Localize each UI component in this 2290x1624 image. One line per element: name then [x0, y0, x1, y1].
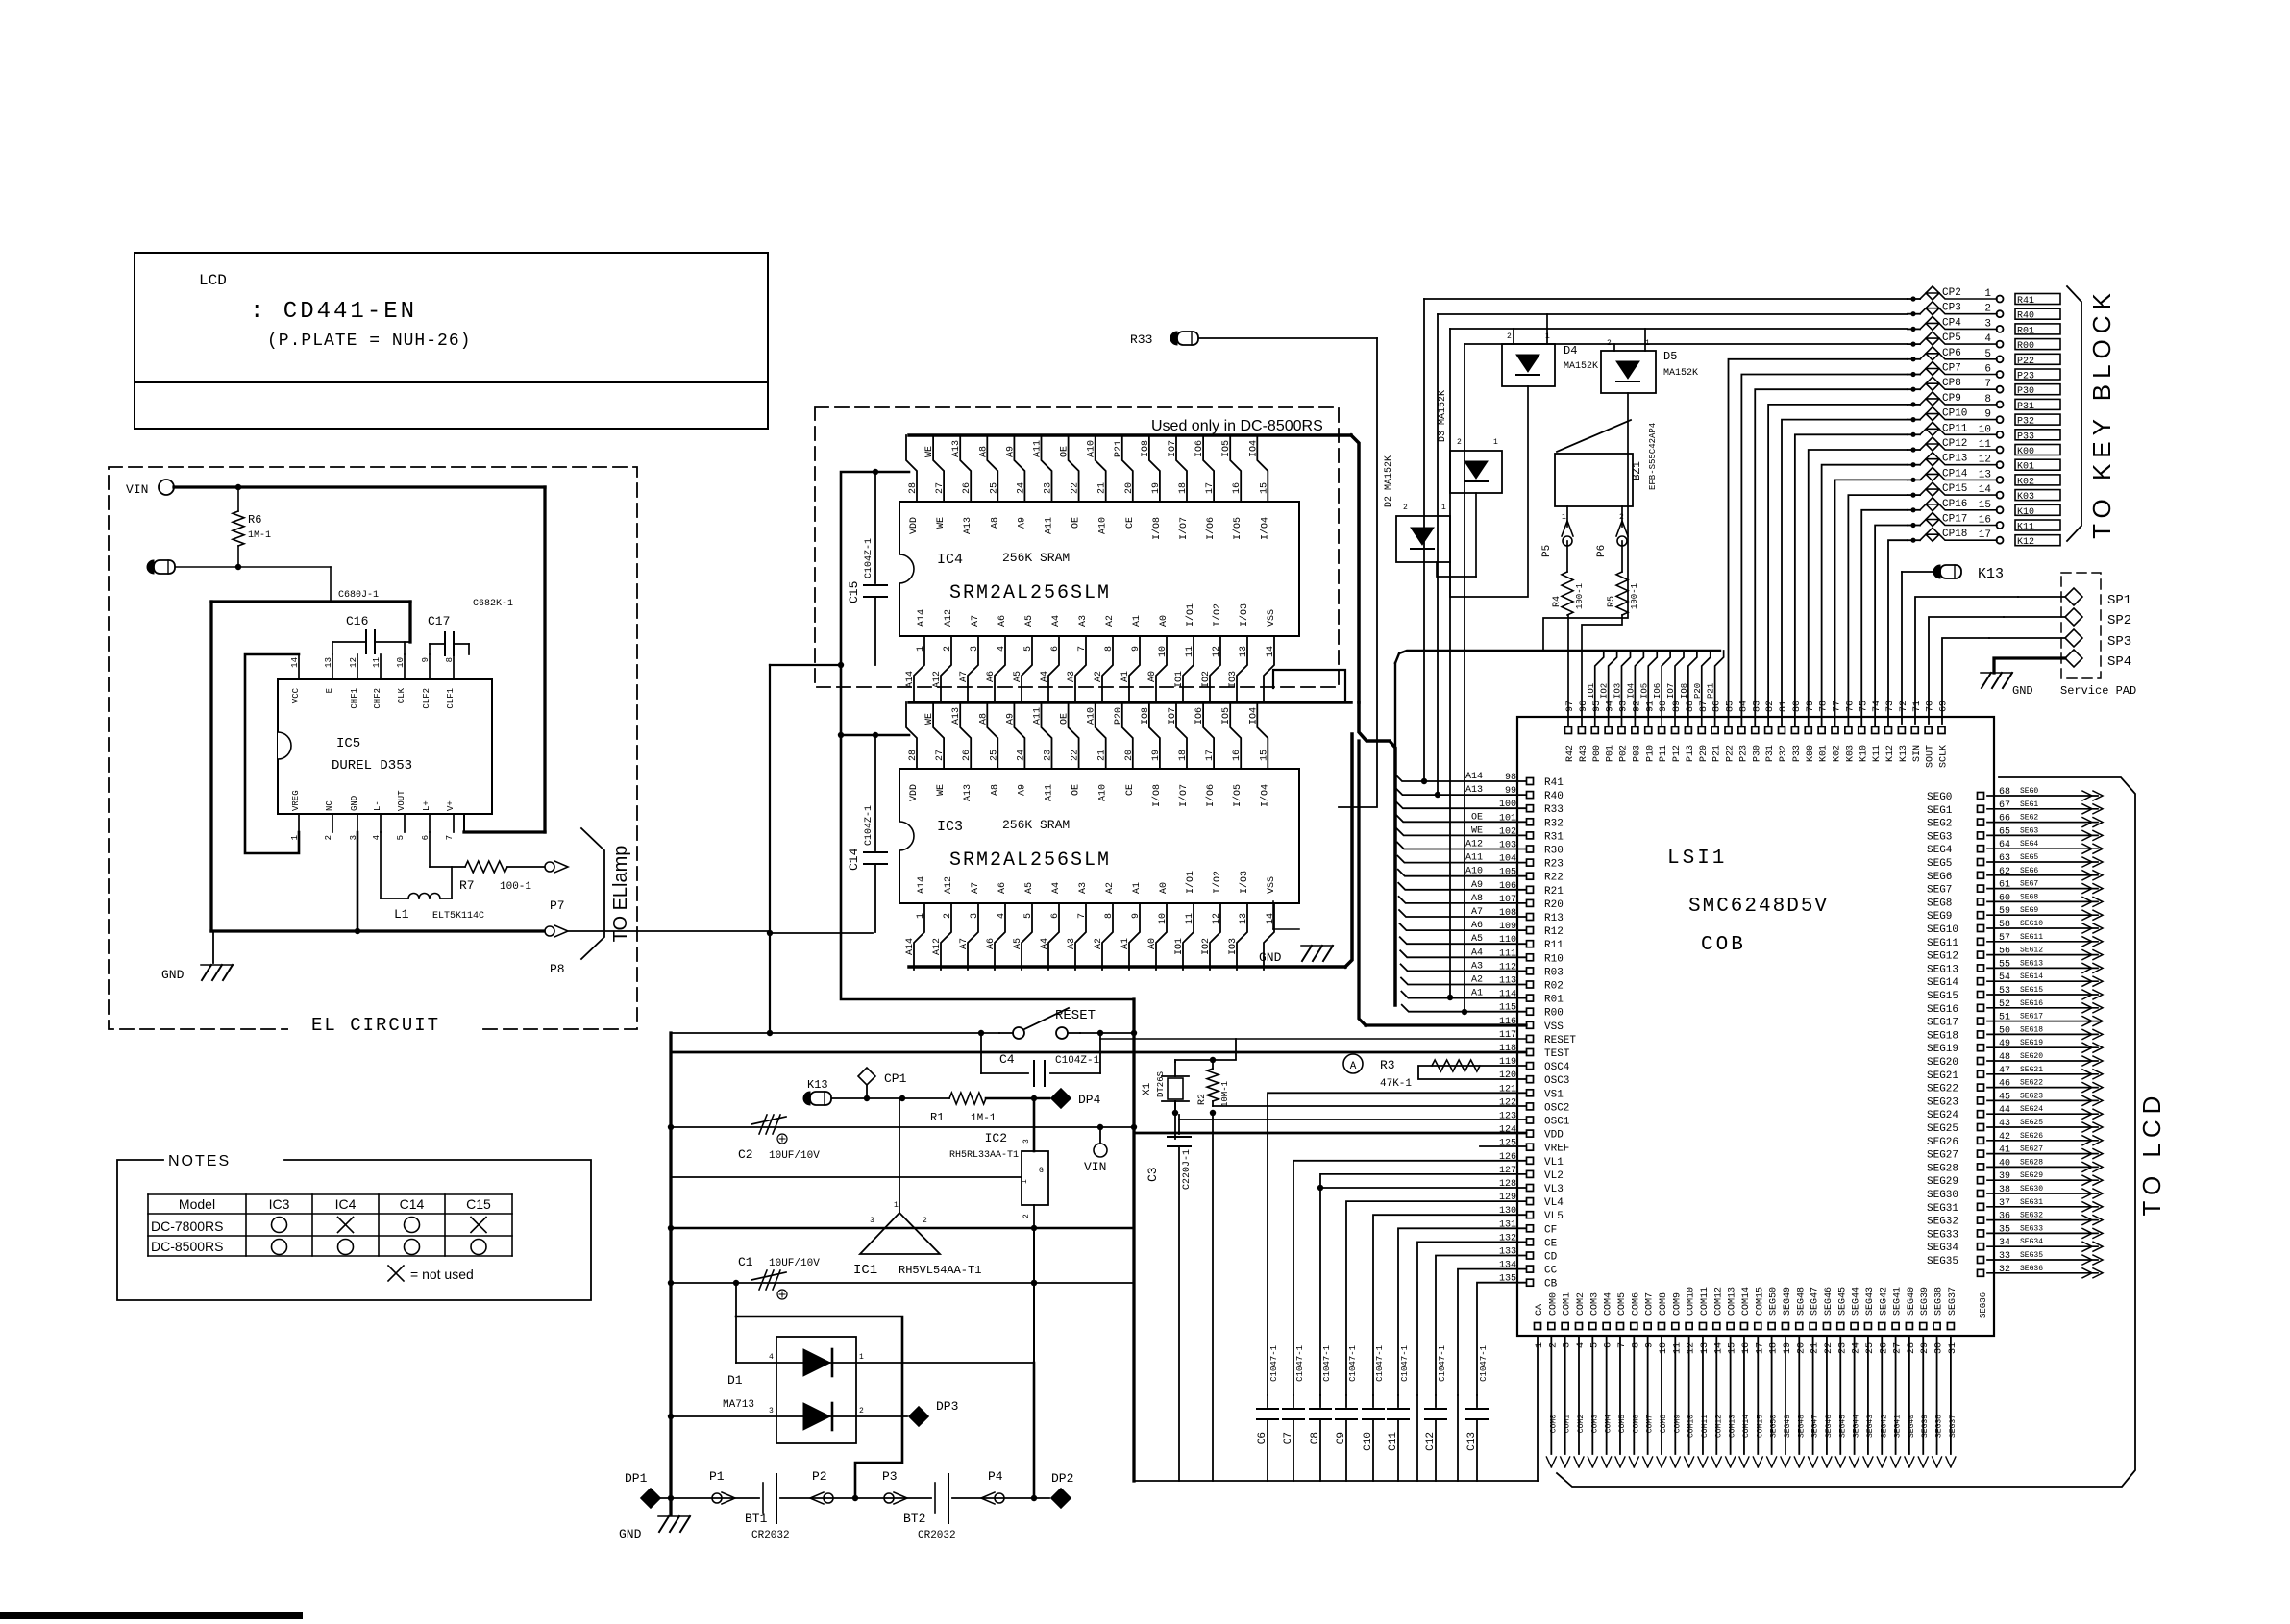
svg-text:10UF/10V: 10UF/10V [769, 1150, 820, 1162]
svg-text:COM1: COM1 [1563, 1292, 1573, 1316]
svg-text:IO7: IO7 [1666, 683, 1676, 699]
svg-text:CP4: CP4 [1942, 317, 1961, 329]
svg-text:R00: R00 [1544, 1008, 1564, 1020]
resistor R7 100-1 [429, 832, 431, 867]
wire IC1 rail [671, 1227, 1134, 1230]
svg-text:5: 5 [1589, 1342, 1600, 1348]
svg-text:SEG18: SEG18 [2020, 1025, 2043, 1034]
svg-text:COM12: COM12 [1714, 1415, 1723, 1438]
svg-text:CE: CE [1125, 784, 1136, 796]
svg-text:SEG45: SEG45 [1838, 1415, 1847, 1438]
svg-text:COM7: COM7 [1645, 1292, 1656, 1316]
svg-text:DUREL D353: DUREL D353 [332, 758, 412, 774]
svg-text:75: 75 [1859, 701, 1869, 712]
wire C2 rail [671, 1126, 1134, 1128]
svg-text:SEG40: SEG40 [1907, 1287, 1917, 1316]
svg-text:DP1: DP1 [625, 1471, 648, 1486]
svg-text:7: 7 [1077, 913, 1088, 919]
svg-text:2: 2 [1457, 438, 1462, 447]
wire VIN rail to V+ [174, 485, 545, 488]
capacitor C13 C1047-1 [1476, 1395, 1478, 1407]
wire VDD rail to pin 124 [1134, 1132, 1526, 1135]
wire IC2 pin2 down [1033, 1205, 1035, 1228]
svg-text:2: 2 [1548, 1342, 1559, 1348]
svg-text:K12: K12 [2017, 537, 2034, 548]
svg-text:23: 23 [1044, 482, 1054, 494]
svg-text:GND: GND [2012, 684, 2033, 698]
svg-text:SEG35: SEG35 [1927, 1256, 1958, 1267]
svg-text:COM6: COM6 [1631, 1292, 1641, 1316]
svg-text:SEG36: SEG36 [2020, 1265, 2043, 1273]
svg-text:A3: A3 [1078, 882, 1089, 894]
svg-text:I/O5: I/O5 [1232, 517, 1243, 540]
svg-text:COM3: COM3 [1590, 1415, 1599, 1433]
svg-text:28: 28 [908, 482, 919, 494]
svg-text:SEG21: SEG21 [1927, 1070, 1958, 1082]
svg-text:SEG26: SEG26 [1927, 1137, 1958, 1148]
wire R33 vertical [1339, 338, 1377, 807]
svg-text:COM13: COM13 [1728, 1287, 1738, 1316]
test pad CP1 [858, 1068, 875, 1085]
svg-text:X1: X1 [1142, 1082, 1153, 1095]
LSI1 chip body [1517, 717, 1994, 1336]
svg-text:SRM2AL256SLM: SRM2AL256SLM [949, 849, 1111, 872]
svg-text:EFB-S55C42AP4: EFB-S55C42AP4 [1648, 423, 1658, 490]
wire C15 loop [841, 472, 909, 665]
node VIN (power) [1094, 1144, 1107, 1157]
svg-text:A1: A1 [1120, 938, 1131, 949]
connector P2 [824, 1493, 833, 1503]
svg-text:CP17: CP17 [1942, 514, 1967, 526]
svg-text:10: 10 [1158, 646, 1169, 657]
svg-text:SEG17: SEG17 [2020, 1013, 2043, 1021]
svg-text:A5: A5 [1013, 938, 1023, 949]
wire CP2 R41 line [1423, 299, 1425, 781]
svg-text:P31: P31 [2017, 402, 2034, 412]
svg-text:SEG24: SEG24 [1927, 1110, 1958, 1121]
svg-text:125: 125 [1499, 1139, 1516, 1149]
svg-text:C15: C15 [466, 1196, 491, 1212]
legend X = not used [388, 1266, 404, 1281]
wire X1/R2 top link [1175, 1059, 1213, 1061]
svg-text:P32: P32 [1779, 745, 1789, 762]
svg-text:IC5: IC5 [336, 736, 360, 751]
svg-text:2: 2 [943, 913, 953, 919]
svg-text:SEG7: SEG7 [2020, 880, 2038, 889]
svg-text:C7: C7 [1283, 1432, 1294, 1444]
svg-text:24: 24 [1016, 482, 1026, 494]
svg-text:C6: C6 [1257, 1432, 1268, 1444]
svg-text:A7: A7 [971, 882, 981, 894]
ground GND (SRAM) [1272, 901, 1274, 929]
svg-text:78: 78 [1819, 701, 1830, 712]
svg-text:A8: A8 [990, 517, 1000, 529]
svg-text:C1047-1: C1047-1 [1479, 1345, 1489, 1382]
svg-text:SEG26: SEG26 [2020, 1132, 2043, 1141]
wire X1 bottom node [1174, 1101, 1176, 1115]
svg-text:A13: A13 [951, 440, 962, 457]
svg-text:IO3: IO3 [1613, 683, 1623, 699]
svg-text:9: 9 [1645, 1342, 1656, 1348]
svg-text:9: 9 [1131, 913, 1142, 919]
svg-text:A10: A10 [1098, 517, 1109, 534]
svg-text:C682K-1: C682K-1 [473, 599, 513, 609]
svg-text:SEG6: SEG6 [1927, 872, 1952, 883]
svg-text:P4: P4 [988, 1469, 1003, 1484]
svg-text:C104Z-1: C104Z-1 [1055, 1055, 1100, 1067]
svg-text:R23: R23 [1544, 859, 1564, 871]
diode pack D1 box [776, 1337, 856, 1443]
svg-text:K03: K03 [1845, 745, 1856, 762]
svg-text:I/O7: I/O7 [1178, 784, 1190, 807]
svg-text:C16: C16 [346, 614, 368, 628]
svg-text:C4: C4 [999, 1052, 1015, 1067]
svg-text:SEG50: SEG50 [1770, 1415, 1779, 1438]
svg-text:RESET: RESET [1055, 1008, 1096, 1023]
svg-text:C10: C10 [1363, 1432, 1374, 1451]
svg-text:COB: COB [1701, 934, 1746, 956]
svg-text:24: 24 [1016, 750, 1026, 761]
svg-text:COM15: COM15 [1755, 1287, 1765, 1316]
svg-text:256K SRAM: 256K SRAM [1002, 818, 1070, 832]
svg-text:A1: A1 [1132, 615, 1143, 627]
svg-text:13: 13 [324, 657, 333, 668]
pad SP4 [2065, 650, 2082, 667]
svg-text:11: 11 [372, 657, 382, 668]
svg-text:IO2: IO2 [1201, 671, 1212, 688]
svg-text:P23: P23 [1738, 745, 1749, 762]
svg-text:MA152K: MA152K [1564, 361, 1598, 372]
svg-text:IO1: IO1 [1174, 938, 1185, 955]
wire left power rail [669, 1033, 672, 1514]
svg-text:SEG19: SEG19 [2020, 1039, 2043, 1047]
svg-text:C15: C15 [847, 581, 861, 603]
svg-text:11: 11 [1185, 646, 1195, 657]
svg-text:CLF1: CLF1 [446, 688, 456, 709]
svg-text:VDD: VDD [909, 517, 920, 534]
svg-text:P33: P33 [1792, 745, 1803, 762]
svg-text:R6: R6 [248, 513, 261, 527]
svg-text:K01: K01 [2017, 462, 2034, 473]
svg-text:CP12: CP12 [1942, 438, 1967, 450]
svg-text:GND: GND [619, 1527, 642, 1541]
svg-text:I/O6: I/O6 [1205, 517, 1217, 540]
svg-text:A11: A11 [1045, 784, 1055, 801]
svg-text:94: 94 [1606, 701, 1616, 712]
svg-text:CP15: CP15 [1942, 483, 1967, 495]
svg-text:P1: P1 [709, 1469, 725, 1484]
bus VDD top (IC4) [909, 433, 1351, 437]
bus bottom (IC3) [909, 965, 1345, 969]
wire diode chain jogs [1437, 562, 1476, 577]
svg-text:R2: R2 [1197, 1094, 1208, 1105]
svg-text:2: 2 [1607, 339, 1612, 348]
svg-text:1: 1 [1021, 1179, 1029, 1184]
svg-text:SEG28: SEG28 [1927, 1163, 1958, 1174]
svg-text:A12: A12 [944, 876, 954, 894]
svg-text:R21: R21 [1544, 886, 1564, 898]
svg-text:CP7: CP7 [1942, 363, 1961, 375]
svg-text:COM14: COM14 [1742, 1415, 1751, 1438]
svg-text:A2: A2 [1105, 615, 1116, 627]
svg-text:SEG36: SEG36 [1979, 1292, 1988, 1318]
svg-text:CLF2: CLF2 [422, 688, 431, 709]
svg-text:P22: P22 [1726, 745, 1736, 762]
svg-text:VIN: VIN [126, 482, 148, 497]
svg-text:(P.PLATE = NUH-26): (P.PLATE = NUH-26) [267, 332, 471, 351]
svg-text:SEG6: SEG6 [2020, 867, 2038, 875]
svg-text:3: 3 [1563, 1342, 1573, 1348]
svg-text:K00: K00 [1806, 745, 1816, 762]
IC5 top pin stubs and labels [298, 654, 300, 679]
LSI1 left pins 98-135 [1527, 778, 1534, 785]
svg-text:26: 26 [1879, 1342, 1889, 1354]
svg-text:COM7: COM7 [1646, 1415, 1655, 1433]
svg-text:Model: Model [179, 1196, 215, 1212]
svg-text:P03: P03 [1632, 745, 1642, 762]
svg-text:C1047-1: C1047-1 [1348, 1345, 1358, 1382]
resistor R1 1M-1 [867, 1097, 949, 1099]
op-amp IC5 DUREL D353 body [278, 679, 492, 814]
wire CE CC straight columns [1416, 1395, 1418, 1481]
svg-text:25: 25 [989, 482, 999, 494]
svg-text:77: 77 [1833, 701, 1843, 712]
svg-text:VREF: VREF [1544, 1144, 1569, 1155]
svg-text:SEG9: SEG9 [2020, 906, 2038, 915]
svg-text:SEG42: SEG42 [1879, 1287, 1889, 1316]
svg-text:8: 8 [445, 657, 455, 662]
svg-text:K13: K13 [1899, 745, 1909, 762]
svg-text:K11: K11 [1872, 745, 1883, 762]
diode D4 MA152K [1502, 344, 1555, 386]
svg-text:SEG47: SEG47 [1811, 1415, 1820, 1438]
svg-text:EL CIRCUIT: EL CIRCUIT [311, 1015, 440, 1036]
svg-text:91: 91 [1645, 701, 1656, 712]
svg-text:A9: A9 [1017, 517, 1027, 529]
svg-text:I/O3: I/O3 [1239, 871, 1250, 894]
svg-text:SRM2AL256SLM: SRM2AL256SLM [949, 582, 1111, 604]
svg-text:2: 2 [324, 835, 333, 840]
svg-text:1: 1 [916, 646, 926, 652]
svg-text:A13: A13 [951, 707, 962, 725]
crystal X1 DT26S [1174, 1062, 1176, 1076]
svg-text:IO4: IO4 [1248, 707, 1259, 725]
pad DP4 [986, 1097, 1049, 1100]
svg-text:17: 17 [1205, 750, 1216, 761]
svg-text:VS1: VS1 [1544, 1089, 1564, 1100]
svg-text:R31: R31 [1544, 831, 1564, 843]
svg-text:90: 90 [1659, 701, 1669, 712]
svg-text:K00: K00 [2017, 447, 2034, 457]
svg-text:SEG34: SEG34 [2020, 1238, 2043, 1246]
component K13 (service) [1933, 565, 1940, 578]
pad DP2 [1051, 1489, 1071, 1508]
wire TEST rail to pin 118 [671, 1051, 1526, 1054]
svg-text:A10: A10 [1087, 707, 1097, 725]
svg-text:COM8: COM8 [1660, 1415, 1668, 1433]
svg-text:VL4: VL4 [1544, 1197, 1564, 1209]
svg-text:K10: K10 [1859, 745, 1869, 762]
svg-text:A9: A9 [1005, 446, 1016, 457]
svg-text:COM15: COM15 [1756, 1415, 1764, 1438]
svg-text:22: 22 [1071, 750, 1081, 761]
svg-text:P8: P8 [550, 962, 565, 976]
svg-text:G: G [1039, 1167, 1044, 1175]
svg-text:SEG17: SEG17 [1927, 1018, 1958, 1029]
svg-text:SEG44: SEG44 [1852, 1287, 1862, 1316]
svg-text:15: 15 [1728, 1342, 1738, 1354]
svg-text:BZ1: BZ1 [1632, 461, 1643, 480]
wire OSC2 to crystal [1213, 1105, 1526, 1107]
svg-text:14: 14 [1266, 913, 1276, 924]
svg-text:SEG21: SEG21 [2020, 1066, 2043, 1074]
svg-text:K13: K13 [1978, 566, 2004, 582]
svg-text:D4: D4 [1564, 344, 1577, 357]
pad SP3 [2065, 629, 2082, 647]
svg-text:NC: NC [325, 800, 334, 811]
svg-text:K02: K02 [1833, 745, 1843, 762]
svg-text:A2: A2 [1105, 882, 1116, 894]
svg-text:C2: C2 [738, 1147, 753, 1162]
svg-text:Used only in DC-8500RS: Used only in DC-8500RS [1151, 418, 1323, 434]
capacitor C9 C1047-1 [1345, 1395, 1347, 1407]
IC4 bottom pin fan [914, 636, 924, 702]
svg-text:31: 31 [1948, 1342, 1958, 1354]
svg-text:6: 6 [1604, 1342, 1614, 1348]
svg-text:73: 73 [1885, 701, 1896, 712]
svg-text:SEG50: SEG50 [1769, 1287, 1780, 1316]
svg-text:R01: R01 [2017, 326, 2034, 336]
svg-text:SEG33: SEG33 [2020, 1224, 2043, 1233]
wire D4 pin stubs to CP lines [1513, 329, 1514, 344]
svg-text:P10: P10 [1645, 745, 1656, 762]
capacitor C3 C220J-1 [1178, 1115, 1180, 1134]
svg-text:15: 15 [1259, 482, 1269, 494]
svg-text:SEG25: SEG25 [1927, 1123, 1958, 1135]
wire CP6-CP18 staircase to LSI top pins [1729, 359, 1908, 726]
svg-text:K12: K12 [1885, 745, 1896, 762]
svg-text:SEG3: SEG3 [2020, 826, 2038, 835]
svg-text:DC-8500RS: DC-8500RS [151, 1239, 223, 1254]
svg-text:A3: A3 [1067, 938, 1077, 949]
wire VSS trunk [1359, 741, 1366, 1025]
svg-text:R40: R40 [2017, 311, 2034, 322]
bracket TO KEY BLOCK [2067, 286, 2081, 541]
svg-text:C1047-1: C1047-1 [1295, 1345, 1305, 1382]
svg-text:LCD: LCD [199, 272, 227, 289]
svg-text:I/O4: I/O4 [1259, 517, 1270, 540]
svg-text:12: 12 [349, 657, 358, 668]
svg-text:SEG14: SEG14 [2020, 972, 2043, 981]
svg-text:BT2: BT2 [903, 1512, 925, 1526]
svg-text:IC4: IC4 [937, 552, 963, 568]
svg-text:C1047-1: C1047-1 [1400, 1345, 1410, 1382]
svg-text:C11: C11 [1388, 1432, 1399, 1451]
svg-text:CP18: CP18 [1942, 529, 1967, 540]
svg-text:A0: A0 [1147, 938, 1158, 949]
svg-text:4: 4 [997, 646, 1007, 652]
resistor R6 [237, 487, 239, 511]
svg-text:A11: A11 [1045, 517, 1055, 534]
svg-text:11: 11 [1185, 913, 1195, 924]
svg-text:COM4: COM4 [1604, 1292, 1614, 1316]
svg-text:14: 14 [290, 657, 300, 668]
svg-text:SEG9: SEG9 [1927, 911, 1952, 923]
svg-text:92: 92 [1632, 701, 1642, 712]
capacitor C12 C1047-1 [1435, 1395, 1437, 1407]
svg-text:TO KEY BLOCK: TO KEY BLOCK [2087, 287, 2116, 539]
svg-text:A2: A2 [1094, 671, 1104, 682]
svg-text:CP2: CP2 [1942, 287, 1961, 299]
TO KEY BLOCK connector rows CP2-CP18 [1908, 298, 1920, 300]
svg-text:Service PAD: Service PAD [2060, 684, 2136, 698]
svg-text:SEG22: SEG22 [1927, 1084, 1958, 1095]
svg-text:R5: R5 [1607, 596, 1617, 607]
svg-text:IC3: IC3 [269, 1196, 290, 1212]
svg-text:SEG12: SEG12 [1927, 951, 1958, 963]
svg-text:P12: P12 [1672, 745, 1683, 762]
svg-text:P02: P02 [1619, 745, 1630, 762]
svg-text:CHF1: CHF1 [350, 688, 359, 709]
svg-text:10: 10 [1659, 1342, 1669, 1354]
svg-text:R01: R01 [1544, 995, 1564, 1006]
svg-text:SEG15: SEG15 [2020, 986, 2043, 995]
svg-text:A8: A8 [990, 784, 1000, 796]
svg-text:TO ELlamp: TO ELlamp [610, 846, 631, 943]
SRAM IC4 body [899, 502, 1299, 636]
svg-text:79: 79 [1806, 701, 1816, 712]
svg-text:K01: K01 [1819, 745, 1830, 762]
svg-text:I/O7: I/O7 [1178, 517, 1190, 540]
svg-text:A2: A2 [1094, 938, 1104, 949]
diode D3 MA152K [1450, 451, 1502, 493]
svg-text:IO8: IO8 [1141, 707, 1151, 725]
svg-text:L-: L- [373, 800, 382, 811]
svg-text:WE: WE [924, 446, 935, 457]
svg-text:C8: C8 [1310, 1432, 1321, 1444]
IC3 bottom pin fan [914, 903, 924, 970]
svg-text:4: 4 [1984, 333, 1991, 345]
svg-text:SP3: SP3 [2107, 634, 2131, 650]
bracket TO EL lamp [581, 828, 604, 959]
svg-text:COM3: COM3 [1589, 1292, 1600, 1316]
wire CP4 R01 line [1449, 329, 1451, 997]
svg-text:P23: P23 [2017, 372, 2034, 382]
svg-text:SEG37: SEG37 [1948, 1287, 1958, 1316]
svg-text:R33: R33 [1544, 804, 1564, 816]
svg-text:SEG14: SEG14 [1927, 977, 1958, 989]
svg-text:256K SRAM: 256K SRAM [1002, 551, 1070, 565]
svg-text:SEG48: SEG48 [1796, 1287, 1807, 1316]
LCD block divider line [135, 381, 768, 383]
svg-text:TEST: TEST [1544, 1048, 1570, 1060]
svg-text:K03: K03 [2017, 492, 2034, 503]
capacitor C15 C104Z-1 [874, 470, 876, 583]
svg-text:WE: WE [936, 784, 947, 796]
wire R2 column down [1212, 1113, 1214, 1481]
svg-text:RH5VL54AA-T1: RH5VL54AA-T1 [899, 1264, 981, 1277]
bus IO line to LSI top pins [1395, 651, 1720, 663]
svg-text:27: 27 [1893, 1342, 1904, 1354]
svg-text:P21: P21 [1707, 683, 1716, 699]
svg-text:6: 6 [1050, 646, 1061, 652]
svg-text:CP6: CP6 [1942, 348, 1961, 359]
svg-text:GND: GND [161, 968, 185, 982]
svg-text:SEG24: SEG24 [2020, 1105, 2043, 1114]
svg-text:DT26S: DT26S [1156, 1071, 1166, 1097]
svg-text:SEG18: SEG18 [1927, 1030, 1958, 1042]
svg-text:13: 13 [1700, 1342, 1711, 1354]
